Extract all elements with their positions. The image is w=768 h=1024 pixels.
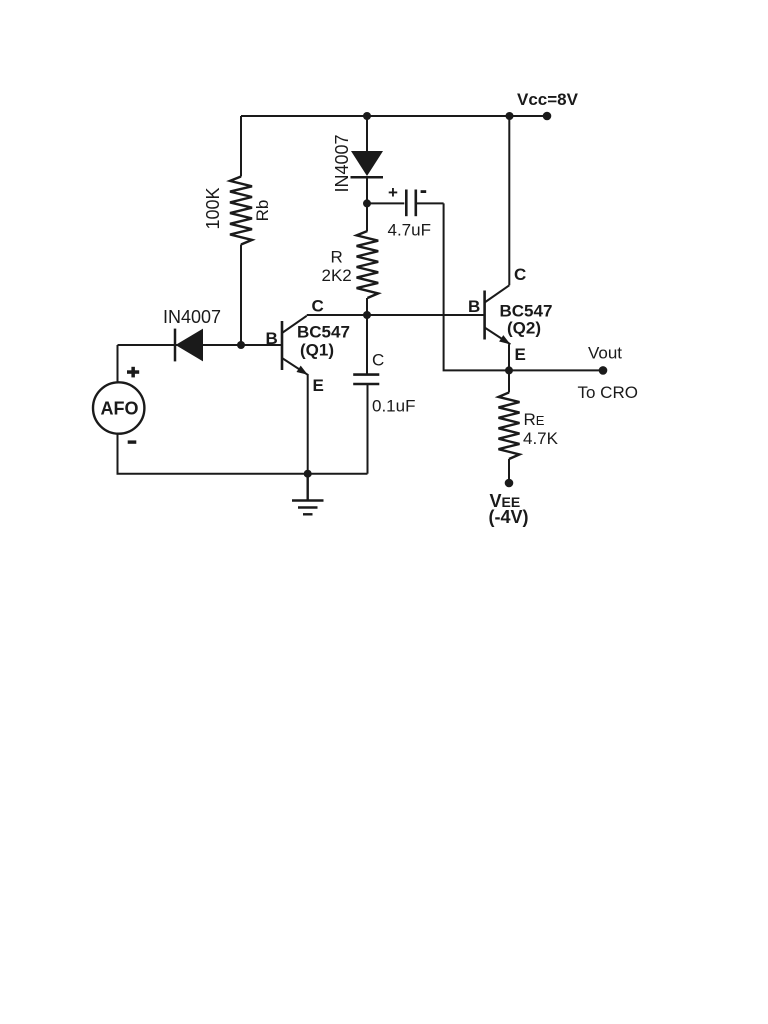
svg-text:(Q2): (Q2) <box>507 319 541 338</box>
ground <box>292 474 324 515</box>
svg-text:To CRO: To CRO <box>578 383 638 402</box>
wire AFO bottom lead and ground rail <box>118 434 368 474</box>
svg-text:Rb: Rb <box>253 200 272 222</box>
label - polarity AFO <box>128 440 137 443</box>
wire top rail Vcc <box>241 115 547 117</box>
wire Q2 collector to Vcc <box>508 116 510 285</box>
node junction Rb base <box>237 341 245 349</box>
svg-text:BC547: BC547 <box>297 323 350 342</box>
node junction top diode branch <box>363 112 371 120</box>
svg-text:C: C <box>312 297 324 316</box>
svg-text:Vout: Vout <box>588 344 622 363</box>
svg-text:(-4V): (-4V) <box>489 507 529 527</box>
svg-text:IN4007: IN4007 <box>163 307 221 327</box>
resistor Rb 100K <box>230 116 252 345</box>
wire Q1 collector to Q2 base <box>307 314 485 316</box>
diode D1 IN4007 vertical <box>351 116 384 203</box>
svg-text:100K: 100K <box>203 187 223 229</box>
svg-text:E: E <box>313 376 324 395</box>
svg-text:R: R <box>331 248 343 267</box>
node junction top Q2 collector branch <box>506 112 514 120</box>
terminal Vcc <box>543 112 552 121</box>
svg-text:4.7K: 4.7K <box>523 429 559 448</box>
label + polarity AFO <box>127 367 139 378</box>
wire Q1 emitter to ground rail <box>307 374 309 474</box>
node junction Q1 collector <box>363 311 371 319</box>
transistor Q2 BC547 <box>485 285 511 344</box>
source AFO circle <box>93 382 144 433</box>
terminal Vout <box>599 366 608 375</box>
capacitor C1 4.7uF <box>367 190 444 217</box>
wire AFO top lead <box>117 345 119 382</box>
wire C1 negative to output node <box>444 203 603 370</box>
svg-text:2K2: 2K2 <box>322 266 352 285</box>
svg-text:AFO: AFO <box>101 399 139 419</box>
svg-text:Vcc=8V: Vcc=8V <box>517 90 579 109</box>
svg-text:C: C <box>514 265 526 284</box>
diode D2 IN4007 horizontal <box>175 329 203 362</box>
label - polarity C1 <box>421 190 427 193</box>
resistor R 2K2 <box>357 203 379 315</box>
svg-text:+: + <box>388 183 398 202</box>
svg-text:4.7uF: 4.7uF <box>388 221 431 240</box>
node junction emitter output <box>505 366 513 374</box>
svg-text:C: C <box>372 351 384 370</box>
node junction ground <box>304 470 312 478</box>
resistor RE 4.7K <box>499 370 520 483</box>
svg-text:B: B <box>468 297 480 316</box>
svg-text:IN4007: IN4007 <box>332 134 352 192</box>
svg-text:RE: RE <box>524 410 545 429</box>
capacitor C2 0.1uF <box>353 315 379 474</box>
svg-text:E: E <box>515 345 526 364</box>
svg-text:0.1uF: 0.1uF <box>372 397 415 416</box>
wire Q1 base from diode <box>118 344 283 346</box>
node junction diode-cap-R <box>363 199 371 207</box>
wire Q2 emitter to output node <box>508 344 510 370</box>
transistor Q1 BC547 <box>282 316 308 375</box>
terminal VEE <box>505 479 514 488</box>
svg-text:(Q1): (Q1) <box>300 341 334 360</box>
